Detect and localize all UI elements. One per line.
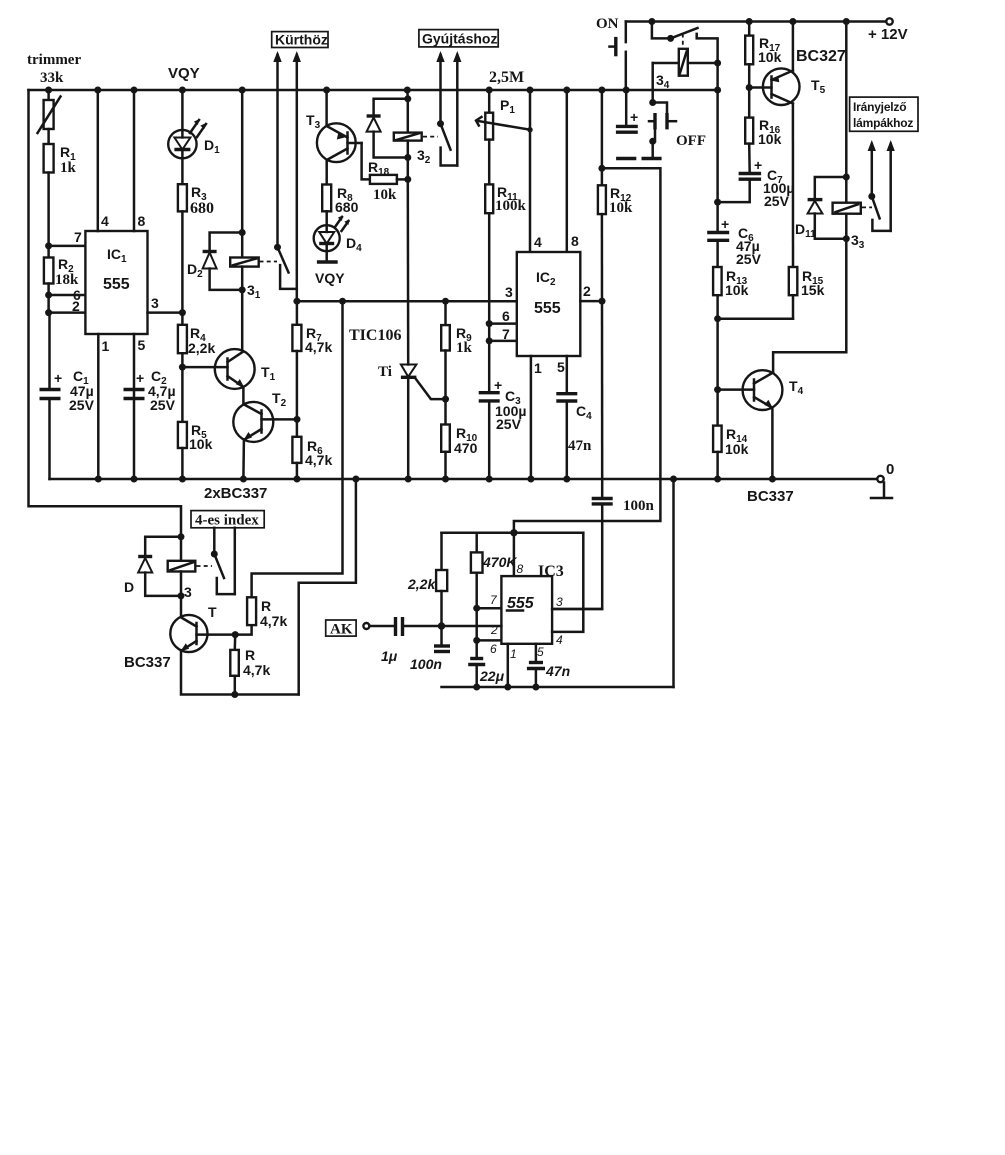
svg-text:555: 555: [103, 276, 130, 293]
wire relay J1 to node 3_1: [241, 267, 244, 290]
svg-text:TIC106: TIC106: [349, 327, 401, 344]
wire T4 emitter to ground: [771, 408, 774, 480]
wire R16 to C7: [748, 144, 751, 174]
wire +12V rail: [626, 20, 886, 23]
svg-text:47n: 47n: [545, 663, 570, 679]
wire D4 to VQY terminal: [325, 244, 328, 263]
svg-text:2,2k: 2,2k: [188, 340, 215, 356]
wire Ti gate: [416, 379, 446, 400]
node +12V D11 J3 branch: [843, 18, 850, 25]
ON switch contact bar: [614, 37, 617, 56]
OFF switch left bar: [653, 113, 656, 129]
svg-text:3: 3: [184, 584, 192, 600]
wire T5 collector down to R15: [792, 104, 795, 268]
wire IC2 pin 2 stub: [580, 300, 602, 303]
svg-text:+: +: [136, 370, 144, 386]
node J2 diode top: [404, 95, 411, 102]
J2 contact cup: [441, 148, 458, 166]
svg-text:VQY: VQY: [168, 65, 200, 82]
wire J2 coil to R18 node: [407, 141, 410, 180]
wire R13 R15 link: [718, 317, 793, 320]
wire T4 base run: [716, 319, 719, 426]
svg-text:8: 8: [517, 562, 524, 576]
wire IC1 pin 6 stub: [49, 294, 86, 297]
node IC1 pin3 junction: [179, 309, 186, 316]
node rail IC2 pin4: [527, 87, 534, 94]
node T4 base junction: [714, 386, 721, 393]
svg-text:470K: 470K: [482, 554, 517, 570]
svg-text:25V: 25V: [69, 397, 95, 413]
wire rail to D1: [181, 90, 184, 130]
node 3_3: [843, 235, 850, 242]
wire R15 bottom link: [792, 295, 795, 319]
svg-text:8: 8: [138, 213, 146, 229]
svg-text:4: 4: [534, 234, 542, 250]
wire IC3 pin 5 to 47n: [535, 644, 538, 663]
svg-text:3: 3: [505, 284, 513, 300]
svg-text:4: 4: [556, 633, 563, 647]
wire trimmer to R1: [47, 129, 50, 144]
wire lower R from base node: [234, 635, 237, 650]
svg-text:OFF: OFF: [676, 133, 706, 149]
wire D11 top hook: [815, 177, 847, 200]
wire IC3 ground riser: [672, 479, 675, 687]
resistor R18: [370, 175, 397, 184]
node D11 top: [843, 174, 850, 181]
wire IC3 pin 7 stub: [477, 607, 502, 610]
svg-text:Gyújtáshoz: Gyújtáshoz: [422, 31, 497, 47]
wire R3 down through pin3 node to R4: [181, 211, 184, 324]
svg-text:4,7k: 4,7k: [305, 339, 332, 355]
wire rail to P1: [488, 90, 491, 113]
wire P1 to R11: [488, 140, 491, 185]
node T4 emitter ground: [769, 476, 776, 483]
svg-text:22μ: 22μ: [479, 668, 505, 684]
wire R7 feed: [296, 301, 299, 325]
svg-text:10k: 10k: [758, 131, 782, 147]
wire D11 bottom hook: [815, 214, 847, 239]
svg-text:4: 4: [101, 213, 109, 229]
node pin7 junction: [486, 337, 493, 344]
4-es index box: [191, 511, 264, 528]
svg-text:VQY: VQY: [315, 270, 345, 286]
capacitor C1: [40, 388, 61, 391]
wire Ti cathode to ground: [407, 377, 410, 479]
svg-text:3: 3: [151, 295, 159, 311]
svg-text:3: 3: [556, 595, 563, 609]
node J2 switch pivot: [437, 120, 444, 127]
wire IC2 pin 1 to ground: [530, 356, 533, 479]
J3 contact cup: [872, 220, 890, 231]
resistor R13: [713, 267, 722, 295]
relay coil J2: [394, 133, 422, 141]
resistor R6: [292, 437, 301, 463]
svg-text:+: +: [54, 370, 62, 386]
node rail pin8: [131, 87, 138, 94]
relay coil J4: [653, 62, 718, 65]
wire J5 coil to node 3: [180, 572, 183, 596]
transistor T5: [763, 68, 800, 105]
wire R18 to J2 coil node: [397, 178, 408, 181]
resistor 2,2k: [436, 570, 447, 591]
wire IC1 pin 7 stub: [49, 245, 86, 248]
svg-text:15k: 15k: [801, 282, 825, 298]
node pin2 junction: [45, 309, 52, 316]
wire C7 to latch node: [718, 179, 750, 202]
svg-text:25V: 25V: [150, 397, 176, 413]
capacitor 100n coupling: [592, 497, 613, 500]
diode D of J2: [367, 114, 381, 117]
svg-text:2: 2: [72, 298, 80, 314]
node pin6 junction: [486, 320, 493, 327]
resistor R10: [441, 425, 450, 452]
wire J2 node down to thyristor anode: [407, 179, 410, 364]
wire R9 feed: [444, 301, 447, 325]
dashed link J2: [423, 136, 438, 138]
resistor R16: [745, 118, 753, 144]
wire T1 emitter to T2 collector: [242, 387, 245, 406]
node R18 junction: [404, 176, 411, 183]
wire index switch pivot stub: [213, 528, 216, 554]
capacitor C3: [479, 391, 500, 394]
resistor R5: [178, 422, 187, 448]
node C6 C7 junction: [714, 199, 721, 206]
relay coil J1: [230, 258, 259, 267]
wire R7 to base node to R6: [296, 351, 299, 437]
svg-text:1k: 1k: [60, 160, 77, 176]
wire T2 emitter to ground: [242, 440, 245, 480]
wire R6 to ground: [296, 463, 299, 479]
resistor R9: [441, 325, 450, 350]
svg-text:25V: 25V: [496, 416, 522, 432]
wire 470k feed: [475, 533, 478, 553]
node rail R12 branch: [598, 87, 605, 94]
svg-text:1k: 1k: [456, 340, 473, 356]
node pin5 ground: [131, 476, 138, 483]
node rail J2 branch: [404, 87, 411, 94]
svg-text:T: T: [208, 604, 217, 620]
wire C1 to ground rail: [48, 399, 51, 480]
svg-text:6: 6: [502, 308, 510, 324]
wire AK input: [369, 625, 395, 628]
wire node 3_3 down to T4 collector: [773, 239, 846, 372]
wire IC2 pin 5 to C4: [566, 356, 569, 394]
wire IC2 pin 6 stub: [489, 322, 517, 325]
node 47n ground: [532, 684, 539, 691]
svg-text:+ 12V: + 12V: [868, 26, 908, 43]
svg-text:33k: 33k: [40, 70, 64, 86]
resistor R17: [745, 36, 753, 65]
wire R11 down to pin6 pin7 C3: [488, 213, 491, 393]
wire main supply node rail y=90: [29, 89, 718, 92]
wire OFF to end bar: [651, 141, 654, 157]
node C3 ground: [486, 476, 493, 483]
node R6 ground: [294, 476, 301, 483]
J1 contact cup: [280, 265, 297, 289]
node latch to node rail: [714, 87, 721, 94]
node rail trimmer: [45, 87, 52, 94]
wire IC3 pin 3 stub: [552, 608, 602, 611]
ON elco end bar: [616, 157, 636, 160]
svg-text:7: 7: [74, 229, 82, 245]
svg-text:R: R: [261, 598, 271, 614]
capacitor C7: [739, 172, 762, 175]
svg-text:BC327: BC327: [796, 48, 846, 65]
node J4 switch pivot: [667, 35, 674, 42]
node R10 ground: [442, 476, 449, 483]
wire C3 to ground: [488, 401, 491, 479]
wire ground bottom rail y=479: [50, 478, 878, 481]
node pin2 junction on R12 line: [599, 298, 606, 305]
wire IC3 pin 6 stub: [477, 639, 502, 642]
node J2 diode bottom: [404, 154, 411, 161]
svg-text:0: 0: [886, 461, 894, 478]
node T1 base junction: [179, 364, 186, 371]
svg-text:BC337: BC337: [747, 488, 794, 505]
capacitor C4: [556, 392, 577, 395]
transistor T2: [233, 402, 273, 442]
wire IC3 top supply line: [442, 532, 584, 535]
AK box: [326, 620, 356, 636]
LED D1: [168, 130, 196, 158]
svg-text:25V: 25V: [736, 251, 762, 267]
wire rail to T3: [325, 90, 328, 126]
svg-text:100n: 100n: [623, 498, 655, 514]
node T2 base junction: [294, 416, 301, 423]
capacitor C2: [124, 388, 145, 391]
wire IC1 pin 8: [133, 90, 136, 231]
wire horn switch pivot line with arrow: [276, 55, 279, 247]
wire upper R top staircase to pin3 run: [252, 301, 343, 597]
resistor R8: [322, 185, 331, 212]
potentiometer P1: [485, 113, 493, 140]
svg-text:+: +: [630, 109, 638, 125]
wire ignition contact line with arrow: [456, 55, 459, 166]
capacitor 47n IC3: [529, 661, 543, 664]
wire +12V to J4 pivot: [652, 22, 671, 39]
svg-text:5: 5: [138, 337, 146, 353]
wire T5 emitter to +12V: [792, 22, 795, 71]
wire D2 top hook: [210, 233, 243, 252]
wire horn contact line with arrow down to IC2 pin3 run: [296, 55, 299, 301]
dashed link J1: [260, 261, 278, 263]
node J3 switch pivot: [868, 193, 875, 200]
resistor R lower 4.7k: [230, 650, 239, 676]
trimmer 33k body: [47, 90, 50, 100]
wire R5 to ground: [181, 448, 184, 479]
svg-text:10k: 10k: [758, 49, 782, 65]
svg-text:Irányjelző: Irányjelző: [853, 100, 906, 114]
wire IC1 pin 3 output: [148, 311, 183, 314]
diode D2: [203, 250, 217, 253]
diode D11: [808, 198, 823, 201]
node T base junction: [232, 631, 239, 638]
wire ON switch lower: [625, 52, 628, 90]
thyristor Ti: [401, 365, 417, 377]
wire ON switch upper: [625, 22, 628, 43]
node R5 ground: [179, 476, 186, 483]
svg-text:trimmer: trimmer: [27, 52, 81, 68]
wire latch node to C6: [716, 202, 719, 232]
wire 2,2k to pin2 node: [440, 591, 443, 626]
svg-text:2,5M: 2,5M: [489, 69, 524, 86]
node IC3 pin6 junction: [473, 637, 480, 644]
IC2 555 body: [517, 252, 581, 356]
node gate junction: [442, 396, 449, 403]
wire right latch line down to C6 area: [716, 63, 719, 202]
OFF switch right bar: [665, 113, 668, 129]
node R13 R15 junction: [714, 315, 721, 322]
OFF end bar: [642, 157, 662, 160]
svg-text:2: 2: [490, 623, 498, 637]
node rail pin4: [94, 87, 101, 94]
wire +12V down through relay J3: [845, 22, 848, 203]
svg-text:8: 8: [571, 233, 579, 249]
resistor R12: [598, 185, 606, 214]
wire R2 to C1: [47, 284, 50, 390]
wire base node to upper R: [235, 625, 251, 635]
node OFF lower junction: [649, 138, 656, 145]
D4 light arrows: [335, 217, 342, 227]
wire J5 diode top hook: [145, 537, 181, 557]
node J4 coil right: [714, 60, 721, 67]
wire lamp contact line with arrow: [889, 144, 892, 231]
svg-text:Ti: Ti: [378, 364, 392, 380]
svg-text:lámpákhoz: lámpákhoz: [853, 116, 913, 130]
node D2 top junction: [239, 229, 246, 236]
svg-text:10k: 10k: [609, 200, 633, 216]
wire 1u to IC3 pin 2: [403, 625, 502, 628]
node pin1 ground: [95, 476, 102, 483]
svg-text:680: 680: [335, 199, 359, 215]
Iranyjelzo box: [850, 97, 918, 131]
node +12V R17 branch: [746, 18, 753, 25]
svg-text:7: 7: [502, 326, 510, 342]
node pin7 junction: [45, 242, 52, 249]
J4 switch blade: [671, 28, 698, 38]
diode D of J5: [138, 555, 152, 558]
svg-text:D: D: [124, 579, 134, 595]
wire D1 to R3: [181, 158, 184, 184]
wire R12 down across ground rail to 100n: [601, 214, 604, 498]
transistor T4: [743, 370, 783, 410]
node IC3 pin7 junction: [473, 605, 480, 612]
wire T3 base to R18: [362, 143, 370, 179]
svg-text:25V: 25V: [764, 193, 790, 209]
OFF switch upper hook: [653, 103, 667, 114]
wire +12V to R17: [748, 22, 751, 36]
wire R4 to T1 base node: [181, 353, 184, 422]
resistor R2: [44, 258, 54, 284]
svg-text:1: 1: [534, 360, 542, 376]
svg-text:1: 1: [102, 338, 110, 354]
wire J4 coil left down to OFF branch: [651, 63, 654, 103]
wire R10 to ground: [444, 452, 447, 479]
wire node 3 to transistor T: [180, 596, 183, 617]
svg-text:R: R: [245, 647, 255, 663]
D1 light arrows: [190, 120, 199, 133]
node ON to node rail: [623, 87, 630, 94]
OFF switch lower hook: [653, 129, 655, 141]
svg-text:BC337: BC337: [124, 654, 171, 671]
resistor R15: [789, 267, 798, 295]
svg-text:5: 5: [557, 359, 565, 375]
resistor R1: [44, 144, 54, 173]
wire IC3 supply run: [514, 168, 661, 533]
J3 switch blade: [872, 196, 880, 218]
node pin3 run R9 feed: [442, 298, 449, 305]
node rail IC2 pin8: [563, 87, 570, 94]
transistor T: [170, 615, 207, 652]
svg-text:47n: 47n: [568, 438, 592, 454]
node C4 ground: [563, 476, 570, 483]
svg-text:ON: ON: [596, 16, 619, 32]
svg-text:2xBC337: 2xBC337: [204, 485, 267, 502]
node IC3 pin8 top: [510, 529, 517, 536]
wire lower R to bottom run: [234, 676, 237, 695]
wire node rail down to R12: [601, 90, 604, 185]
node OFF upper junction: [649, 99, 656, 106]
wire 2,2k feed: [440, 533, 443, 570]
J5 switch blade: [214, 554, 224, 578]
wire R14 to ground: [716, 452, 719, 479]
relay coil J3: [833, 203, 861, 214]
wire rail down through relay J1: [241, 90, 244, 258]
wire IC3 pin 8: [513, 533, 516, 576]
wire R1 to pin7 node: [47, 173, 50, 258]
wire J3 coil to node 3_3: [845, 214, 848, 239]
node J5 feed top: [178, 533, 185, 540]
resistor R7: [292, 325, 301, 351]
wire IC3 pin 1 to ground run: [507, 644, 510, 687]
Kurthoz box: [272, 32, 328, 48]
svg-text:555: 555: [534, 300, 561, 317]
wire T emitter to bottom run: [181, 651, 299, 695]
svg-text:100n: 100n: [410, 656, 442, 672]
node P1 wiper to pin4 line: [527, 127, 532, 132]
wire IC3 ground run: [442, 686, 674, 689]
resistor R3: [178, 184, 187, 211]
wire IC1 pin 5 to ground: [133, 334, 136, 479]
svg-text:4,7k: 4,7k: [305, 452, 332, 468]
wire J5 diode bottom hook: [145, 573, 181, 596]
IC1 555 body: [85, 231, 147, 334]
node IC2 pin1 ground: [527, 476, 534, 483]
node 3_1: [239, 286, 246, 293]
wire C6 to R13: [716, 240, 719, 267]
node +12V T5 emitter: [789, 18, 796, 25]
wire IC2 pin 4: [529, 90, 532, 252]
svg-text:Kürthöz: Kürthöz: [275, 32, 328, 48]
transistor T3: [317, 123, 356, 162]
wire node 3_1 to T1 collector: [241, 290, 244, 352]
wire IC1 pin 1 to ground: [97, 334, 100, 479]
node 3 of J5: [178, 592, 185, 599]
node R14 ground: [714, 476, 721, 483]
node ground rail outer staircase: [352, 476, 359, 483]
wire J2 diode bottom hook: [374, 132, 408, 158]
wire C4 to ground: [566, 401, 569, 479]
node 22u ground: [473, 684, 480, 691]
svg-text:1: 1: [510, 647, 517, 661]
wire 22u to IC3 ground run: [475, 665, 478, 688]
svg-text:4-es index: 4-es index: [195, 513, 259, 529]
svg-text:+: +: [721, 216, 729, 232]
wire 100n to IC3 pin 3: [552, 504, 602, 609]
svg-text:1μ: 1μ: [381, 648, 398, 664]
node rail T3 branch: [323, 87, 330, 94]
svg-text:100k: 100k: [495, 198, 527, 214]
